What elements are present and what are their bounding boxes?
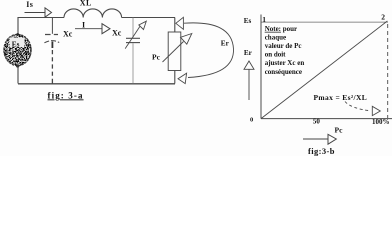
svg-text:I: I [82,20,85,29]
svg-text:Note: pour: Note: pour [265,25,297,33]
variable capacitor Xc branch wire upper [132,18,134,38]
svg-text:1: 1 [262,15,266,24]
wire: left vertical upper [17,17,19,35]
wire: bottom wire [18,83,175,85]
svg-text:50: 50 [313,118,321,126]
svg-text:2: 2 [381,12,385,21]
svg-text:fig:3-b: fig:3-b [308,146,335,156]
svg-text:Pc: Pc [152,53,161,62]
svg-text:Pmax = Es²/XL: Pmax = Es²/XL [314,93,368,102]
svg-text:chaque: chaque [265,33,286,41]
svg-text:Pc: Pc [335,125,344,134]
svg-text:Xc: Xc [63,29,73,38]
wire: left vertical lower [17,65,19,84]
svg-text:ajuster Xc en: ajuster Xc en [265,59,305,67]
svg-text:XL: XL [80,0,92,8]
svg-text:Er: Er [244,49,253,57]
dashed vertical at 100% [387,24,389,118]
capacitor Xc (dashed branch) [51,18,53,34]
svg-text:conséquence: conséquence [265,68,302,76]
svg-text:100%: 100% [372,118,390,126]
inductor XL [64,9,122,18]
diagonal curve [261,21,387,119]
x axis [261,118,392,120]
wire: top wire left segment [18,17,64,19]
svg-text:valeur de Pc: valeur de Pc [265,42,302,50]
svg-text:Xc: Xc [112,28,122,37]
wire: variable cap branch lower [132,43,134,83]
variable capacitor arrow [125,26,140,49]
svg-text:Is: Is [26,0,33,9]
voltage arc Er [184,23,234,78]
wire: right vertical lower [174,71,176,84]
wire: right vertical upper [174,18,176,33]
top border line [262,21,389,23]
y axis [260,15,262,119]
source Es (stippled circle) [4,33,32,68]
wire: top wire right segment [122,17,175,19]
svg-text:on doit: on doit [265,51,286,59]
arrow Er up [244,61,254,69]
variable capacitor Xc plates [126,37,140,39]
svg-text:Es: Es [12,41,20,49]
dashed pointer curve [345,102,371,111]
arrow Pc right [303,138,328,140]
variable resistor arrow [163,42,184,63]
svg-text:Er: Er [221,39,230,47]
resistor Pc (box) [168,32,181,71]
svg-text:Es: Es [244,17,252,25]
svg-text:0: 0 [250,116,253,123]
svg-text:fig: 3-a: fig: 3-a [48,90,84,100]
